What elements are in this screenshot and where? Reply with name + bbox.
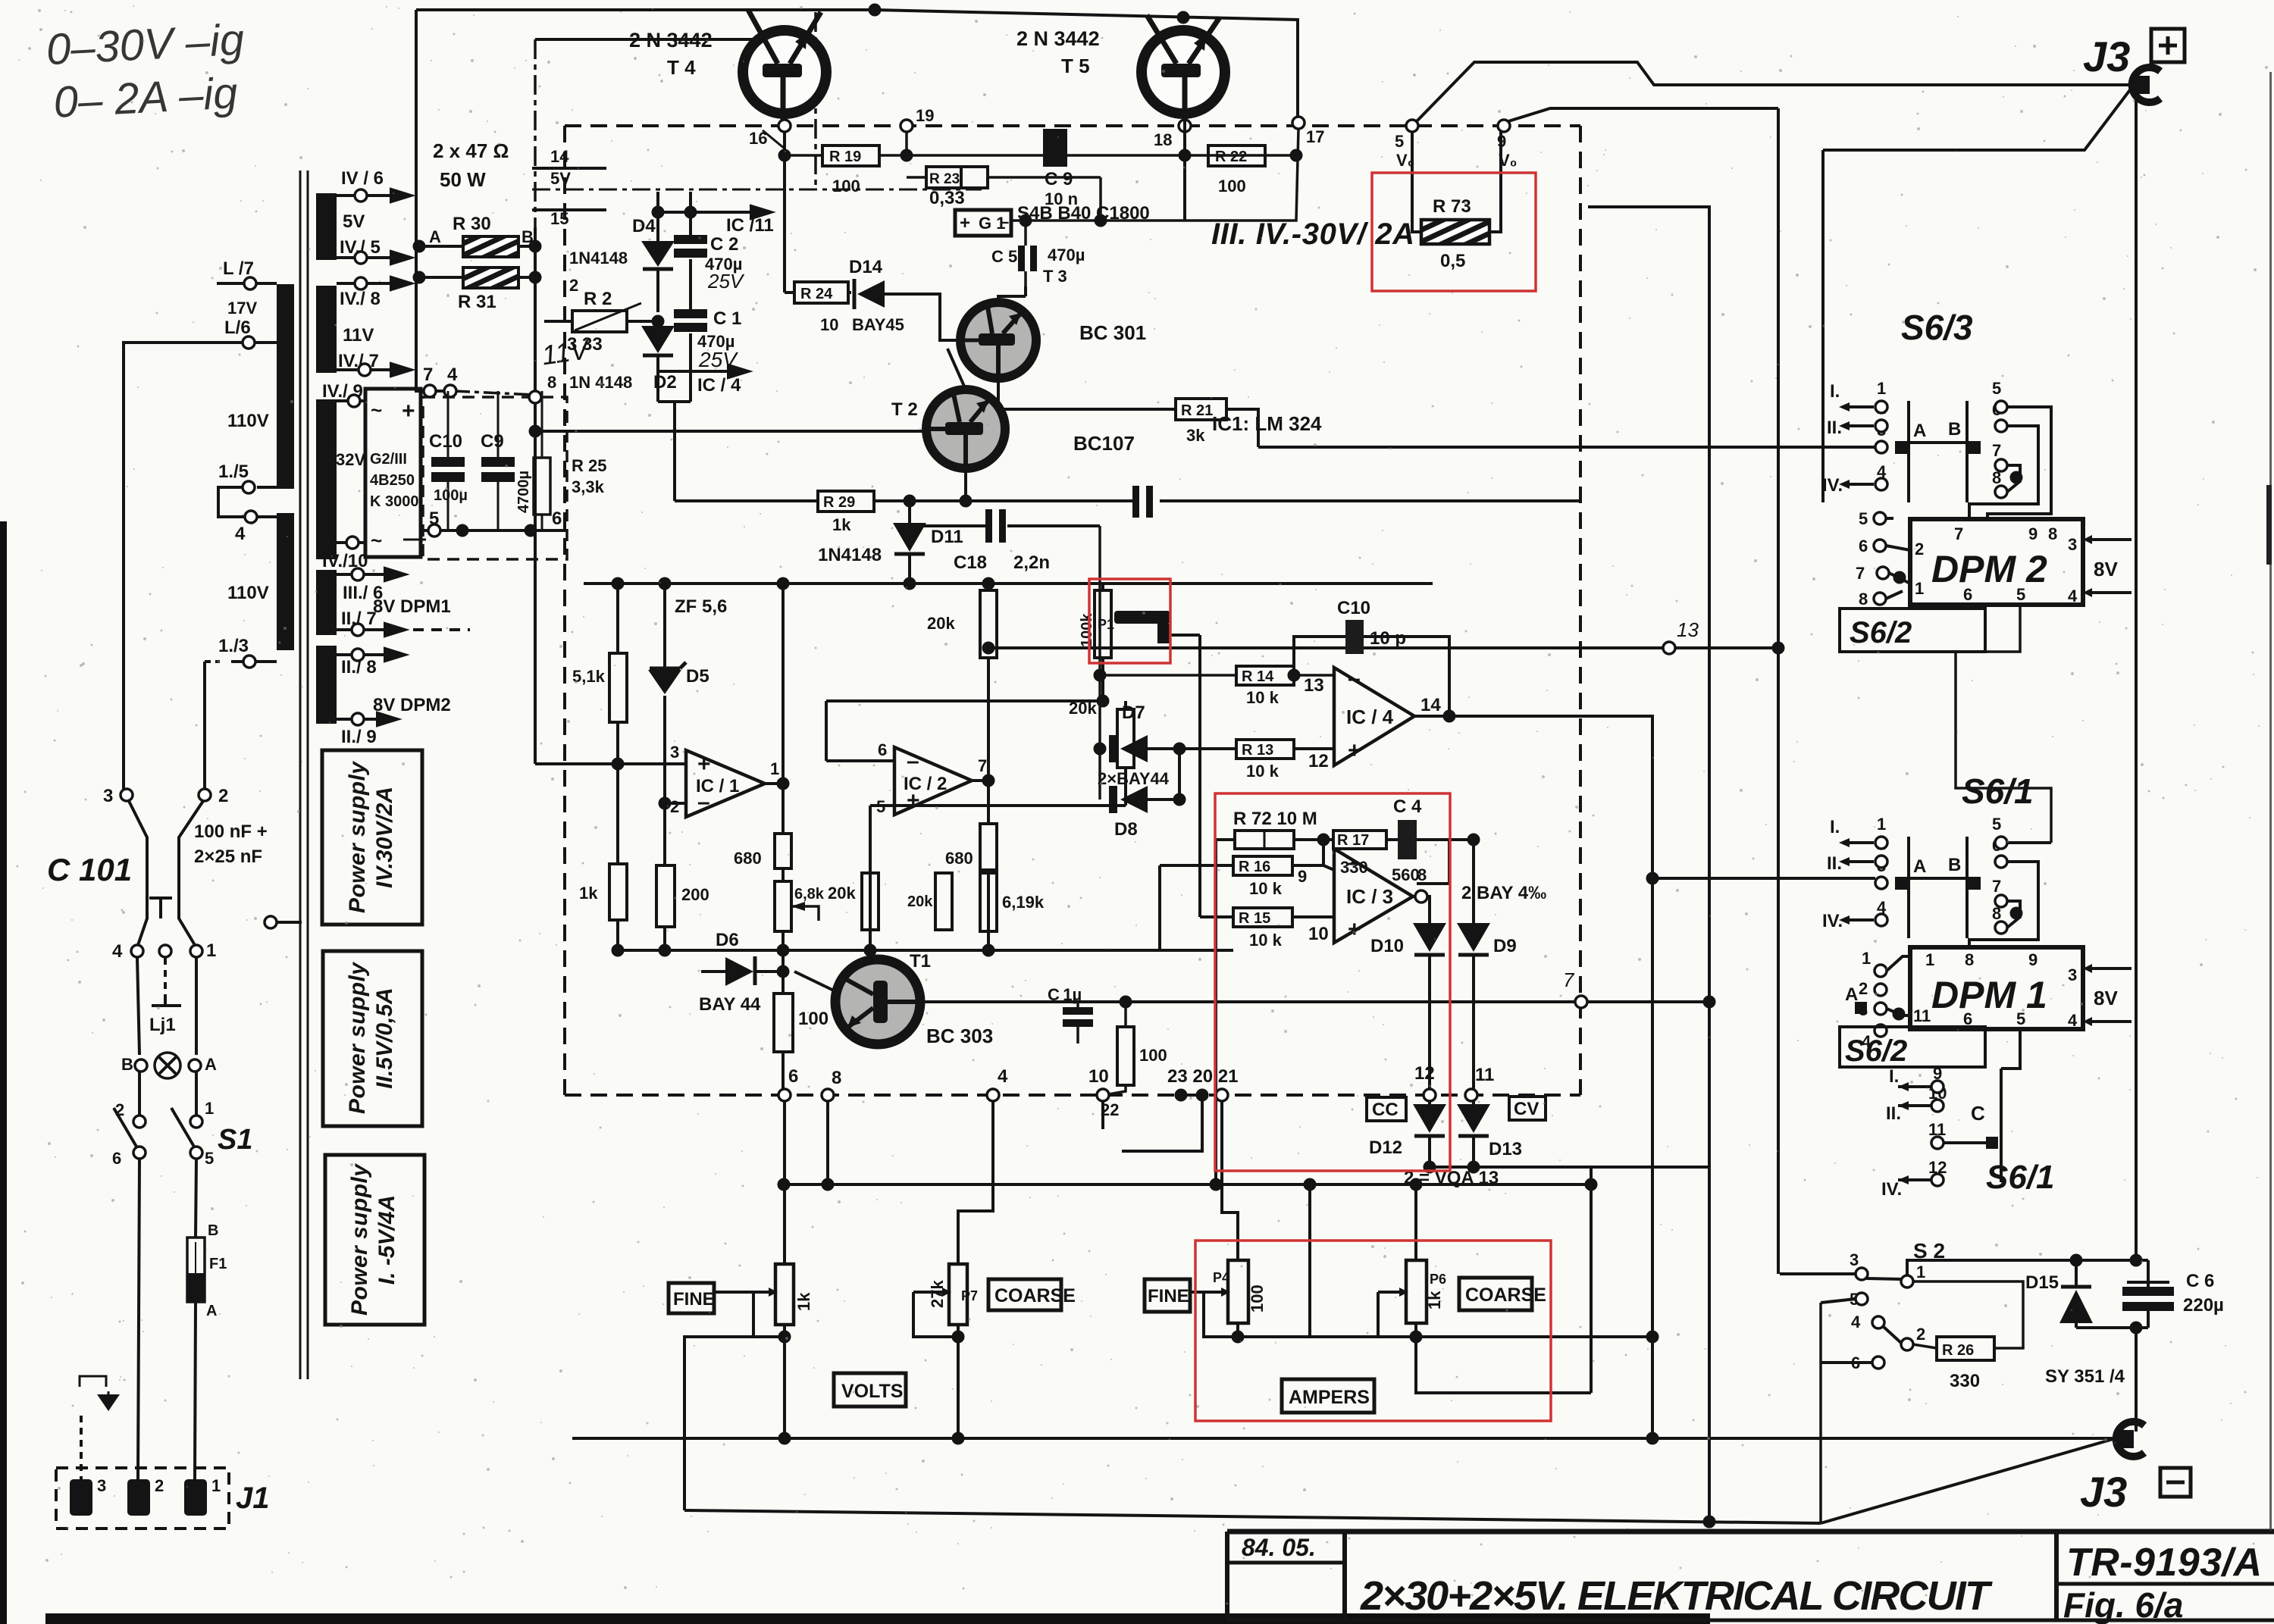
red highlight box AMPERS: [1195, 1241, 1551, 1421]
resistor R6 20k feedback: [987, 584, 990, 824]
svg-text:IC / 4: IC / 4: [1346, 706, 1394, 728]
T5 emitter lead: [1183, 114, 1186, 221]
rail node 12: [1424, 1089, 1436, 1101]
box COARSE ampers: [1459, 1278, 1532, 1310]
svg-text:2×BAY44: 2×BAY44: [1098, 769, 1170, 788]
svg-text:B: B: [121, 1055, 133, 1074]
svg-text:R 22: R 22: [1215, 149, 1247, 165]
svg-text:7: 7: [1992, 877, 2001, 896]
svg-text:8: 8: [2048, 524, 2057, 543]
wire 3 to C101 switch: [129, 801, 147, 945]
svg-text:C18: C18: [954, 552, 987, 573]
vertical join right of R30/R31: [535, 227, 618, 764]
svg-text:IV.: IV.: [1881, 1179, 1902, 1200]
svg-text:COARSE: COARSE: [994, 1285, 1076, 1306]
svg-text:P6: P6: [1430, 1272, 1446, 1287]
svg-text:5V: 5V: [343, 211, 365, 232]
svg-text:D14: D14: [849, 257, 883, 277]
svg-text:IV.30V/2A: IV.30V/2A: [372, 787, 397, 888]
diode D13: [1472, 1101, 1475, 1104]
wire 6 down to J1 pin2: [138, 1159, 139, 1479]
secondary bar II8-II9: [316, 646, 337, 724]
svg-text:5: 5: [429, 508, 439, 529]
svg-text:C 101: C 101: [47, 852, 132, 887]
P6 feed: [1414, 1184, 1417, 1260]
pot P3 1k: [775, 1264, 794, 1325]
svg-text:2: 2: [1859, 979, 1868, 998]
wire 5 down to fuse: [196, 1159, 196, 1238]
svg-text:II./ 8: II./ 8: [341, 657, 377, 677]
resistor R15: [1200, 915, 1334, 918]
svg-text:C 9: C 9: [1045, 169, 1073, 189]
svg-text:–: –: [1348, 850, 1361, 875]
svg-text:IV / 6: IV / 6: [341, 168, 384, 189]
svg-text:+: +: [1348, 917, 1361, 942]
svg-text:Lj1: Lj1: [149, 1015, 176, 1035]
pot R10 under IC/1: [781, 868, 785, 950]
svg-text:1k: 1k: [794, 1292, 813, 1311]
node10 stub: [1101, 1101, 1104, 1129]
rectifier G1 box: [365, 389, 421, 557]
svg-text:4: 4: [1851, 1313, 1861, 1331]
rail node 4: [987, 1089, 999, 1101]
svg-text:D11: D11: [931, 527, 963, 547]
svg-text:470µ: 470µ: [1048, 246, 1085, 264]
DPM1 box: [1910, 947, 2083, 1029]
primary winding bar lower: [277, 513, 294, 650]
transistor T2 BC107: [926, 390, 1005, 468]
long vertical right bus: [2135, 94, 2138, 1432]
svg-text:R 26: R 26: [1942, 1342, 1974, 1359]
capacitor C10 feedback: [1294, 637, 1449, 716]
node 19: [901, 120, 913, 132]
svg-text:VOLTS: VOLTS: [841, 1381, 903, 1402]
svg-text:25V: 25V: [707, 270, 745, 293]
svg-text:10 p: 10 p: [1370, 628, 1406, 649]
svg-text:C 1: C 1: [713, 308, 741, 329]
resistor R73 leads: [1412, 132, 1501, 232]
svg-text:FINE: FINE: [673, 1289, 715, 1310]
svg-text:A: A: [1913, 421, 1926, 441]
diode D9: [1472, 840, 1475, 923]
svg-text:4: 4: [2068, 1011, 2078, 1030]
dashed frame top rail: [565, 124, 1580, 127]
resistor R2 variable: [544, 320, 658, 323]
svg-text:R 72 10 M: R 72 10 M: [1233, 809, 1317, 829]
svg-text:R 17: R 17: [1337, 832, 1369, 849]
node4 to P7: [958, 1101, 993, 1264]
node 8 on frame: [529, 391, 541, 403]
svg-text:4: 4: [235, 524, 246, 544]
svg-text:IV.: IV.: [1822, 475, 1843, 496]
svg-text:1./5: 1./5: [218, 462, 249, 482]
svg-text:6: 6: [112, 1149, 121, 1168]
IC/4 output to S6/1: [1414, 716, 1652, 1438]
terminal 4 of switch: [131, 945, 143, 957]
svg-text:S6/1: S6/1: [1962, 771, 2034, 811]
resistor R23: [907, 177, 1101, 221]
svg-text:D10: D10: [1370, 936, 1404, 956]
J3 minus clip: [2116, 1430, 2134, 1448]
rail node 6: [778, 1089, 791, 1101]
node 18: [1179, 120, 1191, 132]
svg-text:+: +: [697, 752, 711, 777]
svg-text:P4: P4: [1213, 1270, 1229, 1285]
svg-text:5: 5: [1395, 132, 1404, 151]
J3 plus clip: [2131, 76, 2150, 94]
svg-text:3 33: 3 33: [567, 334, 603, 355]
svg-text:8V: 8V: [2094, 558, 2118, 580]
svg-text:3,3k: 3,3k: [572, 477, 605, 496]
dashed box around filter caps: [423, 397, 567, 559]
ground symbol: [80, 1376, 106, 1387]
svg-text:L /7: L /7: [223, 258, 254, 279]
svg-text:1k: 1k: [832, 515, 851, 534]
opamp IC/3: [1334, 849, 1413, 943]
transistor T4 2N3442: [743, 10, 826, 126]
resistor R19 row: [785, 154, 1296, 157]
svg-text:680: 680: [945, 849, 973, 868]
svg-text:BC 303: BC 303: [926, 1025, 993, 1047]
red highlight box R73: [1372, 173, 1536, 291]
svg-text:C 2: C 2: [710, 234, 738, 255]
svg-text:12: 12: [1414, 1063, 1435, 1084]
svg-text:Power supply: Power supply: [347, 1163, 372, 1316]
svg-text:C 1µ: C 1µ: [1048, 985, 1082, 1004]
svg-text:R 19: R 19: [829, 149, 861, 165]
svg-text:+: +: [1348, 738, 1361, 763]
capacitor C6: [2147, 1260, 2150, 1328]
svg-text:8V: 8V: [2094, 987, 2118, 1009]
svg-text:8: 8: [1417, 865, 1427, 884]
svg-text:D12: D12: [1369, 1137, 1402, 1158]
svg-text:I.: I.: [1830, 817, 1840, 837]
D15 C6 bottom rail: [2076, 1326, 2148, 1329]
box AMPERS: [1282, 1379, 1374, 1413]
svg-text:100: 100: [798, 1009, 828, 1029]
diode D14: [853, 279, 857, 309]
node 2: [199, 789, 211, 801]
svg-text:+: +: [960, 213, 970, 233]
secondary bar IV6-IV5: [316, 193, 337, 260]
svg-text:11: 11: [1475, 1065, 1494, 1085]
power supply box II.5V/0.5A: [323, 951, 422, 1126]
svg-text:12: 12: [1308, 751, 1329, 771]
secondary bar 32V: [316, 399, 337, 559]
svg-text:5: 5: [2016, 585, 2025, 604]
svg-text:10: 10: [820, 315, 838, 334]
svg-text:R 29: R 29: [823, 494, 855, 511]
resistor R3 column: [616, 584, 619, 764]
red highlight box IC3: [1215, 793, 1450, 1171]
sense line to S6/3: [1258, 446, 1875, 449]
svg-text:2,2n: 2,2n: [1013, 552, 1050, 573]
resistor R73 hatched: [1421, 220, 1489, 244]
svg-text:I.: I.: [1889, 1066, 1899, 1087]
svg-text:5V: 5V: [550, 169, 571, 188]
svg-text:2: 2: [1915, 540, 1924, 559]
rail node 8: [822, 1089, 834, 1101]
svg-text:7: 7: [1856, 564, 1865, 583]
svg-text:9: 9: [2028, 524, 2038, 543]
resistor R16: [1160, 840, 1334, 950]
R26 loop: [1913, 1281, 2023, 1348]
S6/1 wafer: [1822, 815, 2051, 947]
svg-text:1: 1: [1877, 379, 1886, 398]
svg-text:1: 1: [1862, 949, 1871, 968]
top rail left: [416, 8, 875, 11]
wire I/5 jog to 4: [218, 487, 245, 517]
svg-text:P7: P7: [961, 1288, 978, 1303]
resistor R12 6,19k: [980, 873, 997, 931]
svg-text:I.: I.: [1830, 381, 1840, 402]
svg-text:C 5: C 5: [991, 247, 1017, 266]
wire 2 to C101 switch: [179, 801, 203, 945]
svg-text:D15: D15: [2025, 1272, 2059, 1293]
svg-text:6: 6: [1859, 537, 1868, 555]
svg-text:220µ: 220µ: [2183, 1295, 2224, 1316]
resistor R8 20k: [869, 873, 871, 950]
svg-text:1N4148: 1N4148: [818, 545, 882, 565]
diode D10: [1413, 923, 1446, 952]
stub 5V dash-dot: [532, 189, 982, 191]
transistor T1 BC303: [835, 959, 920, 1044]
svg-text:2: 2: [670, 797, 679, 816]
svg-text:8: 8: [1965, 950, 1974, 969]
svg-text:A: A: [1913, 856, 1926, 877]
svg-text:IC / 2: IC / 2: [904, 774, 947, 794]
svg-text:Power supply: Power supply: [345, 962, 370, 1114]
wire IC/4 arrow: [658, 370, 739, 373]
dashed bottom rail of frame: [565, 1094, 1580, 1097]
capacitor C2: [689, 192, 692, 312]
DPM1 8V arrows: [2092, 968, 2131, 1022]
svg-text:0– 2A –ig: 0– 2A –ig: [52, 68, 239, 127]
svg-text:5: 5: [1992, 815, 2001, 834]
svg-text:K 3000: K 3000: [370, 493, 419, 510]
svg-text:III. IV.-30V/ 2A: III. IV.-30V/ 2A: [1211, 217, 1414, 251]
svg-text:2×25 nF: 2×25 nF: [194, 846, 262, 867]
svg-text:4B250: 4B250: [370, 472, 415, 489]
svg-text:II./ 7: II./ 7: [341, 609, 377, 629]
pot P7 27k: [949, 1264, 967, 1325]
P3 feed: [783, 1184, 786, 1264]
svg-text:100µ: 100µ: [434, 487, 468, 504]
capacitor C4: [1398, 820, 1417, 859]
J1 pin 1: [184, 1479, 207, 1516]
C4 feedback to IC/3 out: [1417, 840, 1449, 884]
svg-text:IC /11: IC /11: [726, 215, 774, 236]
svg-text:20k: 20k: [907, 893, 933, 910]
svg-text:7: 7: [1992, 441, 2001, 460]
J3+ feed diagonal from node 5: [1417, 62, 2136, 121]
pot P1 100k in red box: [1101, 584, 1104, 701]
svg-text:BAY 44: BAY 44: [699, 994, 761, 1015]
connector J1 dashed box: [56, 1468, 229, 1529]
opamp IC/4: [1334, 668, 1414, 765]
stub 14: [532, 167, 606, 170]
svg-text:1: 1: [770, 759, 779, 778]
svg-text:T 2: T 2: [891, 399, 918, 420]
svg-text:R 30: R 30: [453, 214, 491, 234]
D15 C6 top rail: [1907, 1260, 2148, 1275]
svg-text:13: 13: [1677, 618, 1699, 641]
svg-text:COARSE: COARSE: [1465, 1284, 1546, 1306]
capacitor C9: [1043, 129, 1067, 167]
svg-text:6: 6: [788, 1066, 798, 1087]
T3 emitter to R21: [998, 378, 1258, 447]
svg-text:14: 14: [550, 147, 569, 166]
svg-text:R 2: R 2: [584, 289, 612, 309]
svg-text:II.: II.: [1827, 418, 1842, 438]
svg-text:50 W: 50 W: [440, 168, 486, 191]
node 5 on minus rail: [421, 529, 567, 532]
terminal L/7: [244, 277, 256, 289]
J3 minus box: [2160, 1468, 2191, 1497]
stub 15: [532, 208, 606, 211]
svg-text:T1: T1: [910, 951, 931, 972]
J1 pin 2: [127, 1479, 150, 1516]
box CV: [1509, 1097, 1546, 1120]
top rail right to corner 1712: [875, 10, 1298, 121]
box COARSE volts: [988, 1279, 1061, 1310]
svg-text:S6/2: S6/2: [1850, 616, 1912, 649]
terminal II/8: [337, 653, 394, 656]
power supply box IV.30V/2A: [322, 750, 422, 925]
svg-text:SY 351 /4: SY 351 /4: [2045, 1366, 2125, 1387]
svg-text:A: A: [205, 1055, 217, 1074]
svg-text:3: 3: [670, 743, 679, 762]
svg-text:7: 7: [978, 756, 987, 775]
resistor R17 330: [1333, 831, 1386, 849]
svg-text:C10: C10: [429, 431, 462, 452]
J1 pin 3: [70, 1479, 92, 1516]
capacitor CP 1u: [1076, 1002, 1079, 1044]
svg-text:J1: J1: [236, 1482, 270, 1515]
feed vertical from C18 row: [1098, 526, 1101, 799]
lower return wire: [684, 1510, 1821, 1523]
vertical bus left: [1588, 207, 1709, 1522]
svg-text:110V: 110V: [227, 583, 269, 603]
svg-text:100: 100: [1139, 1046, 1167, 1065]
resistor R14: [1100, 674, 1334, 677]
svg-text:110V: 110V: [227, 411, 269, 431]
center dashed terminal: [159, 945, 171, 957]
Lj1 bar symbol: [152, 999, 181, 1006]
S6/2 label box upper: [1840, 609, 1985, 652]
svg-text:1: 1: [1925, 950, 1934, 969]
terminal IV/7: [337, 368, 400, 371]
wire L/7 stub: [217, 282, 244, 285]
svg-text:2 x 47 Ω: 2 x 47 Ω: [433, 139, 509, 162]
svg-text:G2/III: G2/III: [370, 451, 407, 468]
svg-text:5: 5: [1859, 509, 1868, 528]
power supply box I.-5V/4A: [325, 1155, 424, 1325]
svg-text:R 13: R 13: [1242, 742, 1273, 759]
P1 wiper to R15 column: [1171, 635, 1200, 917]
svg-text:R 16: R 16: [1239, 859, 1270, 875]
node19 lead: [905, 132, 908, 155]
svg-text:100: 100: [1218, 177, 1246, 196]
S6/2 lower contacts: [1875, 965, 1887, 977]
handwritten note 0-30V-ig: [45, 15, 248, 127]
node 17: [1292, 117, 1305, 129]
transistor T3 BC301: [960, 302, 1036, 378]
svg-text:R 31: R 31: [458, 292, 496, 312]
resistor R24: [785, 291, 851, 294]
svg-text:1N 4148: 1N 4148: [569, 373, 632, 392]
pot P4 100: [1228, 1260, 1248, 1323]
node20 stub: [1122, 1101, 1202, 1151]
svg-text:R 24: R 24: [800, 286, 833, 302]
svg-text:2: 2: [218, 786, 228, 806]
resistor R11: [781, 950, 785, 1095]
resistor R9: [935, 873, 952, 930]
svg-text:27k: 27k: [928, 1280, 947, 1308]
resistor R22: [1208, 146, 1265, 166]
svg-text:10: 10: [1308, 924, 1329, 944]
svg-text:7: 7: [1563, 968, 1575, 991]
svg-text:1: 1: [206, 940, 216, 961]
wire to IC/11 arrow: [658, 211, 762, 214]
svg-text:3: 3: [103, 786, 113, 806]
svg-text:2: 2: [1916, 1325, 1925, 1344]
svg-text:D4: D4: [632, 216, 656, 236]
svg-text:T 5: T 5: [1061, 55, 1090, 77]
supply bus y=770: [584, 582, 1433, 585]
diagonal into J3 minus: [1821, 1438, 2116, 1523]
svg-text:1k: 1k: [1425, 1291, 1444, 1310]
svg-text:2 N 3442: 2 N 3442: [629, 29, 713, 52]
svg-text:9: 9: [1298, 867, 1307, 886]
S6/2 upper contacts: [1874, 512, 1886, 524]
svg-text:4: 4: [447, 365, 458, 385]
secondary bar III6-II7: [316, 570, 337, 635]
svg-text:IV.: IV.: [1822, 911, 1843, 931]
svg-text:IC / 3: IC / 3: [1346, 885, 1393, 908]
svg-text:FINE: FINE: [1148, 1286, 1189, 1306]
IC/3 output to D10: [1413, 896, 1430, 923]
diode D2: [656, 321, 659, 402]
svg-text:I. -5V/4A: I. -5V/4A: [374, 1195, 399, 1284]
node 4: [444, 385, 456, 397]
capacitor C10: [447, 391, 449, 530]
secondary bar IV8-IV7: [316, 286, 337, 373]
svg-text:3k: 3k: [1186, 426, 1205, 445]
svg-text:T 3: T 3: [1043, 267, 1067, 286]
svg-text:32V: 32V: [336, 450, 365, 469]
C101 T mark: [149, 898, 172, 918]
rail node 11: [1465, 1089, 1477, 1101]
svg-text:7: 7: [423, 365, 433, 385]
capacitor C5: [1024, 221, 1027, 286]
svg-text:C9: C9: [481, 431, 504, 452]
svg-text:BAY45: BAY45: [852, 315, 904, 334]
svg-text:L/6: L/6: [224, 318, 251, 338]
svg-text:6,19k: 6,19k: [1002, 893, 1045, 912]
DPM2 box: [1910, 519, 2083, 605]
IC/1 input wires: [618, 762, 686, 765]
svg-text:S6/3: S6/3: [1901, 308, 1973, 347]
svg-text:TR-9193/A: TR-9193/A: [2066, 1541, 2262, 1585]
terminal II/7: [337, 628, 394, 631]
svg-text:3: 3: [97, 1476, 106, 1495]
capacitor C18 row: [910, 524, 1100, 527]
IC/2 wires: [826, 701, 894, 950]
svg-text:8: 8: [832, 1068, 841, 1088]
terminal IV/10: [337, 541, 365, 544]
svg-text:R 25: R 25: [572, 456, 606, 475]
